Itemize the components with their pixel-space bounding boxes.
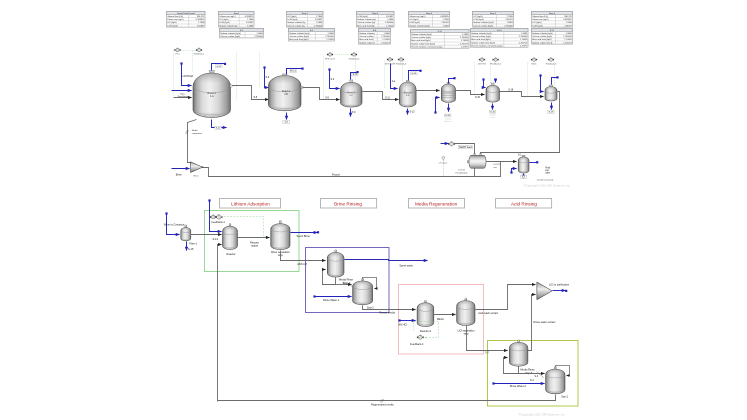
stream SV1 out right — [530, 161, 539, 163]
sep-2 top loop — [363, 278, 377, 289]
svg-text:Calcium sulfate (kg/h): Calcium sulfate (kg/h) — [411, 36, 431, 39]
svg-text:output: output — [251, 244, 258, 248]
table feed-3 — [357, 12, 395, 28]
svg-text:Feedback-6: Feedback-6 — [546, 64, 557, 66]
label box SV1 bottom — [520, 176, 526, 179]
svg-text:Rinse water extract: Rinse water extract — [534, 320, 556, 324]
label React-2 — [282, 90, 291, 96]
vessel Media Rinse 2 — [509, 340, 528, 367]
stream into Reactor top — [208, 199, 221, 231]
label Media Rinse Step-1 — [339, 278, 354, 285]
vessel Brine separation step — [271, 220, 290, 249]
stream into V3 top-left — [328, 68, 339, 88]
stream Rinse Water-1 — [313, 295, 351, 297]
label S-22 box — [215, 126, 222, 129]
label React-1 — [208, 92, 217, 98]
svg-text:NaOH feed: NaOH feed — [459, 145, 472, 149]
flowsheet break symbol — [186, 130, 189, 134]
svg-text:Precipitation: Precipitation — [455, 171, 468, 174]
sub-table s4 — [359, 29, 391, 45]
feedback-1 dashed wire — [221, 217, 268, 237]
svg-text:Step 5: Step 5 — [490, 12, 497, 15]
procedure boundary dashes group 4 — [385, 61, 403, 89]
table feed-2 — [287, 12, 324, 28]
valve icon Feedback-6 — [546, 57, 557, 65]
label NaOH feed box — [458, 145, 473, 149]
regen media inlet wire — [218, 245, 222, 402]
stream V7 top out — [552, 76, 559, 84]
svg-text:7.0894: 7.0894 — [443, 25, 450, 27]
valve icon Feedback-5 — [490, 57, 501, 65]
wire to Sep-1 — [519, 373, 545, 375]
svg-text:React-4: React-4 — [404, 91, 412, 94]
svg-text:S-15: S-15 — [475, 97, 481, 99]
vessel V6 wash-1 — [486, 83, 500, 102]
svg-text:Step 2: Step 2 — [302, 12, 309, 15]
vessel Sep-1 — [546, 366, 565, 393]
svg-text:Grand Total/Overall: Grand Total/Overall — [177, 12, 195, 15]
procedure boundary dashes group 1 — [174, 51, 197, 97]
vessel V3 React-3 — [341, 80, 363, 107]
label greyed below V6 — [490, 115, 496, 120]
media rinse 2 recirculation loop — [504, 358, 519, 374]
svg-text:Feedback-5: Feedback-5 — [490, 64, 501, 66]
svg-text:Calcium sulfate (kg/h): Calcium sulfate (kg/h) — [471, 35, 491, 38]
svg-text:separation: separation — [192, 132, 203, 135]
valve icon Feedback-4 — [396, 57, 407, 65]
svg-text:Step 4: Step 4 — [426, 12, 433, 15]
stream V1 bottom out — [212, 120, 227, 128]
label S-21 box — [216, 65, 223, 68]
svg-text:LiCO3: LiCO3 — [458, 170, 465, 172]
svg-text:Sodium chloride (kg/h): Sodium chloride (kg/h) — [409, 24, 430, 27]
feedback-2 icon — [417, 335, 424, 340]
procedure boundary dashes group 2 — [237, 53, 260, 100]
label box V4 top — [411, 72, 418, 75]
vessel V5 crystallizer — [441, 82, 455, 102]
svg-text:1.74026: 1.74026 — [386, 25, 394, 27]
stream into V5 lower-left — [434, 98, 439, 114]
label drum out — [494, 164, 501, 169]
svg-text:LiCO3 recovered: LiCO3 recovered — [537, 178, 554, 181]
svg-text:1-A: 1-A — [210, 95, 214, 98]
wire Reactor output — [238, 237, 270, 239]
svg-text:Crystal: Crystal — [445, 118, 452, 121]
svg-text:Rinsed media: Rinsed media — [379, 310, 395, 314]
wire V4 to V5 — [417, 90, 440, 92]
svg-text:S-19: S-19 — [549, 112, 554, 114]
svg-text:2.47377: 2.47377 — [520, 46, 528, 48]
svg-text:Conc.: Conc. — [180, 93, 186, 95]
svg-text:S-15: S-15 — [188, 247, 194, 251]
wire ADS LIX — [281, 251, 326, 261]
svg-text:2.47377: 2.47377 — [461, 47, 469, 49]
svg-text:MX-1: MX-1 — [194, 176, 200, 178]
section title Lithium Adsorption — [220, 199, 281, 209]
svg-text:Sodium sulfate feed (k: Sodium sulfate feed (k — [532, 41, 553, 44]
svg-text:Boric acid feed (kg/h): Boric acid feed (kg/h) — [289, 38, 309, 41]
svg-text:Sep-1: Sep-1 — [561, 395, 568, 399]
table overall-process — [167, 12, 206, 28]
wire regenerated media — [218, 395, 556, 401]
section box media regeneration (pink) — [399, 285, 484, 355]
svg-text:S-21: S-21 — [216, 66, 221, 68]
table feed-6 — [532, 12, 573, 28]
svg-text:Acid wash extract: Acid wash extract — [478, 311, 498, 315]
svg-text:cake: cake — [545, 173, 551, 175]
svg-text:2.81697: 2.81697 — [564, 25, 572, 27]
wire V6 to V7 — [500, 92, 544, 97]
svg-text:Calcium sulfate (kg/h): Calcium sulfate (kg/h) — [220, 35, 240, 38]
wire drum bottom to recycle — [474, 169, 476, 177]
sub-table s7 — [532, 29, 573, 45]
svg-text:Sodium sulfate fe: Sodium sulfate fe — [359, 41, 376, 44]
label Brine separation step — [271, 250, 290, 257]
svg-text:LiOH/CaO: LiOH/CaO — [183, 76, 194, 78]
stream into SV1 lower-left — [510, 169, 516, 174]
stream into V6 top-left — [482, 78, 485, 87]
stream Brine into mixer — [172, 168, 190, 170]
table feed-1 — [219, 12, 255, 28]
valve icon PV-1 — [174, 48, 180, 56]
stream into V4 top-left — [391, 64, 398, 89]
svg-text:©Copyright 2023 SRI Systems, I: ©Copyright 2023 SRI Systems, Inc. — [524, 184, 571, 188]
svg-text:Acid Rinsing: Acid Rinsing — [511, 202, 537, 207]
leader line step-2 — [537, 372, 544, 378]
stream Brine to Contactor — [165, 212, 179, 234]
section title Brine Rinsing — [321, 199, 377, 209]
svg-text:LiOH (kg/h): LiOH (kg/h) — [167, 25, 178, 27]
label box V5 bottom — [444, 114, 451, 117]
svg-text:LiOH (kg/h): LiOH (kg/h) — [532, 25, 543, 27]
stream into V2 top-left — [263, 66, 268, 87]
svg-text:React-3: React-3 — [347, 91, 355, 94]
stream grey into V1 — [174, 97, 192, 99]
valve icon Feedback-3 — [349, 52, 360, 60]
valve icon 25% HCl — [478, 57, 486, 65]
svg-text:2.780456: 2.780456 — [254, 36, 263, 38]
svg-text:2.780456: 2.780456 — [314, 25, 323, 27]
svg-text:ADS LIX: ADS LIX — [297, 262, 307, 266]
svg-text:S-13: S-13 — [411, 73, 416, 75]
svg-text:3% HCl: 3% HCl — [398, 323, 407, 327]
section title Acid Rinsing — [496, 199, 552, 209]
wire V5 to V6 — [456, 91, 485, 95]
svg-text:Brine Rinsing: Brine Rinsing — [334, 202, 362, 207]
section box lithium adsorption (green) — [205, 211, 300, 272]
stream V2 bottom out — [286, 113, 288, 120]
feedback-1 icons — [210, 214, 223, 219]
svg-text:S-14: S-14 — [445, 115, 450, 117]
svg-text:Step 6: Step 6 — [549, 12, 556, 15]
procedure boundary dashes group 3 — [324, 55, 356, 100]
svg-text:S-11: S-11 — [385, 97, 390, 99]
drum LiCO3 precipitation — [467, 154, 486, 169]
wire V3 to V4 — [363, 92, 399, 100]
svg-text:2-B: 2-B — [284, 94, 288, 96]
label greyed below V5 — [444, 118, 452, 124]
label LiCO3 Precipitation — [455, 170, 468, 175]
svg-text:S-14: S-14 — [213, 237, 219, 241]
svg-text:Percent hardness removed analy: Percent hardness removed analysi — [471, 45, 503, 48]
svg-text:4-D: 4-D — [406, 95, 410, 97]
svg-text:Reactor: Reactor — [227, 252, 236, 256]
stream brine feed into V1 — [172, 90, 192, 92]
leader line step-1 — [350, 285, 355, 289]
stream V2 top out — [287, 68, 304, 75]
wire V1 to V2 — [231, 86, 269, 100]
stream S-15 down — [186, 242, 188, 251]
stream V3 top out — [351, 71, 359, 80]
svg-text:S-25: S-25 — [353, 74, 358, 76]
procedure boundary dashes group 6 — [528, 63, 555, 97]
stream V4 top out — [409, 70, 422, 81]
label box V7 bottom — [548, 111, 555, 114]
svg-text:Boric acid feed (kg/: Boric acid feed (kg/ — [357, 24, 375, 27]
stream Spent Brine — [291, 231, 320, 233]
nozzle V1 right — [230, 85, 232, 87]
valve icon Feedback-1 — [194, 48, 205, 56]
valve icon Wash — [531, 57, 537, 65]
svg-text:React-2: React-2 — [282, 90, 291, 93]
svg-text:Reactor-2: Reactor-2 — [420, 329, 432, 333]
label box V2 top — [290, 70, 297, 73]
stream V1 top out — [212, 63, 227, 71]
svg-text:5.7007e3: 5.7007e3 — [563, 42, 572, 44]
vessel Reactor-2 — [417, 300, 434, 327]
svg-text:Feedback-3: Feedback-3 — [349, 59, 360, 61]
svg-text:Rinse Water-2: Rinse Water-2 — [510, 384, 527, 388]
svg-text:REGLI: REGLI — [437, 319, 444, 321]
pump icon NaOH — [448, 141, 455, 146]
label LiCl separation step — [458, 328, 476, 335]
media rinse 1 recirculation loop — [323, 270, 336, 285]
label media separation — [192, 130, 203, 135]
label brine feed — [178, 93, 189, 98]
stream V3 bottom out — [350, 109, 352, 117]
svg-text:Percent hardness removed analy: Percent hardness removed analysi — [411, 46, 443, 49]
vessel V1 React-1 — [193, 70, 231, 117]
vessel Media Rinse 1 — [327, 250, 344, 277]
mixer cone LiCl to purification — [537, 282, 552, 300]
label box V3 top — [352, 73, 358, 76]
section box brine rinsing (purple) — [306, 248, 390, 313]
vessel V2 React-2 — [268, 74, 301, 111]
svg-text:Wash: Wash — [531, 64, 536, 66]
valve icon SPS CaLi2 — [325, 52, 336, 60]
svg-text:S-18: S-18 — [508, 89, 514, 91]
sub-table s2 — [220, 29, 264, 39]
vessel V7 wash-2 — [545, 85, 557, 101]
valve icon 45% NaOH — [385, 57, 396, 65]
section box acid rinsing (yellow-green) — [488, 341, 579, 407]
wire rinsed media — [363, 306, 416, 310]
wire rinse water extract — [528, 295, 536, 351]
svg-text:Feedback-2: Feedback-2 — [410, 342, 424, 346]
sub-table s5 — [411, 30, 470, 49]
wire S-14 — [191, 234, 222, 236]
wire REGLI — [434, 314, 456, 316]
svg-text:Step 3: Step 3 — [372, 12, 379, 15]
svg-text:Filter-1: Filter-1 — [189, 241, 198, 245]
svg-text:Sep-2: Sep-2 — [367, 306, 374, 310]
svg-text:Media Regeneration: Media Regeneration — [415, 202, 458, 207]
stream V6 bottom out — [492, 104, 494, 110]
svg-text:Calcium sulfate (kg/h): Calcium sulfate (kg/h) — [289, 35, 309, 38]
svg-text:Feed: Feed — [234, 13, 240, 15]
stream V5 top out — [449, 77, 456, 83]
svg-text:Calcium sulfate (: Calcium sulfate ( — [359, 35, 375, 38]
svg-text:S-13: S-13 — [410, 111, 416, 113]
label React-3 — [347, 91, 355, 97]
svg-text:Feedback-4: Feedback-4 — [396, 64, 407, 66]
label final wet cake — [545, 167, 551, 174]
label box V6 bottom — [489, 110, 496, 113]
svg-text:pH adjust: pH adjust — [439, 161, 448, 164]
wire V1 area down to mixer — [188, 120, 197, 163]
stream LiCl to purification — [553, 290, 568, 292]
sub-table s6 — [471, 29, 529, 48]
svg-text:Calcium sulfate (kg: Calcium sulfate (kg — [287, 24, 304, 27]
svg-text:Sodium chloride (kg: Sodium chloride (kg — [219, 24, 237, 27]
svg-text:25% HCl: 25% HCl — [478, 64, 486, 66]
vessel SV1 — [518, 155, 529, 173]
svg-text:S-16: S-16 — [490, 111, 495, 113]
svg-text:Spent Brine: Spent Brine — [297, 234, 311, 238]
svg-text:Brine: Brine — [176, 173, 183, 177]
table feed-5 — [473, 12, 514, 28]
wire to Sep-2 — [336, 284, 352, 286]
svg-text:1.74026: 1.74026 — [326, 39, 334, 41]
svg-text:Feedback-1: Feedback-1 — [211, 220, 225, 224]
stream NaOH into pump — [441, 143, 449, 145]
svg-text:2.780456: 2.780456 — [504, 25, 513, 27]
stream 3% HCl — [398, 319, 415, 321]
break symbol regenerated media — [381, 399, 384, 403]
svg-text:Brine to Contactor: Brine to Contactor — [164, 223, 185, 227]
mixer MX-1 triangle — [191, 162, 204, 173]
stream V7 bottom out — [551, 103, 553, 110]
vessel Sep-2 — [353, 278, 373, 305]
stream V5 bottom out — [448, 104, 450, 112]
svg-text:filtration: filtration — [444, 120, 452, 123]
svg-text:Rinse Water-1: Rinse Water-1 — [323, 298, 340, 302]
stream SV1 bottom out — [523, 174, 525, 179]
stream into V7 top-left — [539, 74, 543, 91]
sep-1 top loop — [556, 366, 570, 376]
label Media Rinse step-2 — [520, 368, 535, 375]
svg-text:Spent water: Spent water — [399, 264, 413, 268]
recycle wire — [203, 162, 501, 177]
svg-text:Final: Final — [545, 167, 550, 169]
svg-text:LiCl to purification: LiCl to purification — [549, 283, 570, 287]
stream into V1 top-left (LiOH) — [180, 62, 191, 85]
svg-text:2.81697: 2.81697 — [197, 25, 205, 27]
wire V7 to precipitation drum — [481, 92, 560, 155]
wire V2 to V3 — [303, 88, 340, 100]
label Reactor output — [250, 241, 259, 248]
wire LiClsep to media rinse 2 — [467, 326, 508, 351]
vessel Filter-1 — [181, 225, 191, 241]
procedure boundary dashes group 5 — [475, 63, 491, 95]
svg-text:Feedback-1: Feedback-1 — [194, 54, 205, 56]
svg-text:S-22: S-22 — [216, 127, 221, 129]
pH adjust icon — [442, 156, 445, 161]
vessel Reactor — [223, 223, 238, 249]
vessel V4 React-4 — [399, 80, 416, 107]
wire pH to recycle line — [443, 162, 445, 177]
vessel LiCl separation step — [457, 298, 475, 326]
label React-4 — [404, 91, 412, 97]
svg-text:©Copyright 2023 SRI Systems, I: ©Copyright 2023 SRI Systems, Inc. — [518, 412, 565, 416]
wire acid wash extract — [476, 285, 536, 310]
svg-text:wet: wet — [545, 169, 549, 172]
stream into V6 top — [494, 78, 496, 82]
svg-text:SPS CaLi2: SPS CaLi2 — [325, 59, 336, 61]
svg-text:3-C: 3-C — [349, 95, 353, 97]
stream Spent water — [345, 260, 428, 261]
stream V4 bottom out — [407, 109, 409, 115]
feedback-2 dashed wire — [414, 322, 439, 338]
svg-text:out: out — [494, 166, 497, 169]
sub-table s3 — [289, 29, 335, 42]
section title Media Regeneration — [409, 199, 465, 209]
svg-text:Calcium sulfate (kg/h): Calcium sulfate (kg/h) — [473, 24, 493, 27]
svg-text:wash: wash — [490, 117, 496, 119]
stream Rinse Water-2 — [492, 382, 544, 384]
table feed-4 — [409, 12, 450, 28]
svg-text:Lithium Adsorption: Lithium Adsorption — [231, 202, 270, 207]
wire drum to SV1 — [487, 161, 517, 163]
svg-text:Recycle: Recycle — [332, 174, 341, 176]
svg-text:Regenerated media: Regenerated media — [371, 402, 394, 406]
svg-text:5.7007e3: 5.7007e3 — [381, 42, 390, 44]
label box V2 bottom — [283, 121, 290, 124]
wire NaOH to drum — [454, 144, 475, 155]
nozzle V2 right — [301, 86, 303, 88]
svg-text:Rxn-2: Rxn-2 — [290, 71, 297, 73]
svg-text:Calcium sulfate (kg/h): Calcium sulfate (kg/h) — [532, 35, 552, 38]
svg-text:7.0894: 7.0894 — [247, 25, 254, 27]
